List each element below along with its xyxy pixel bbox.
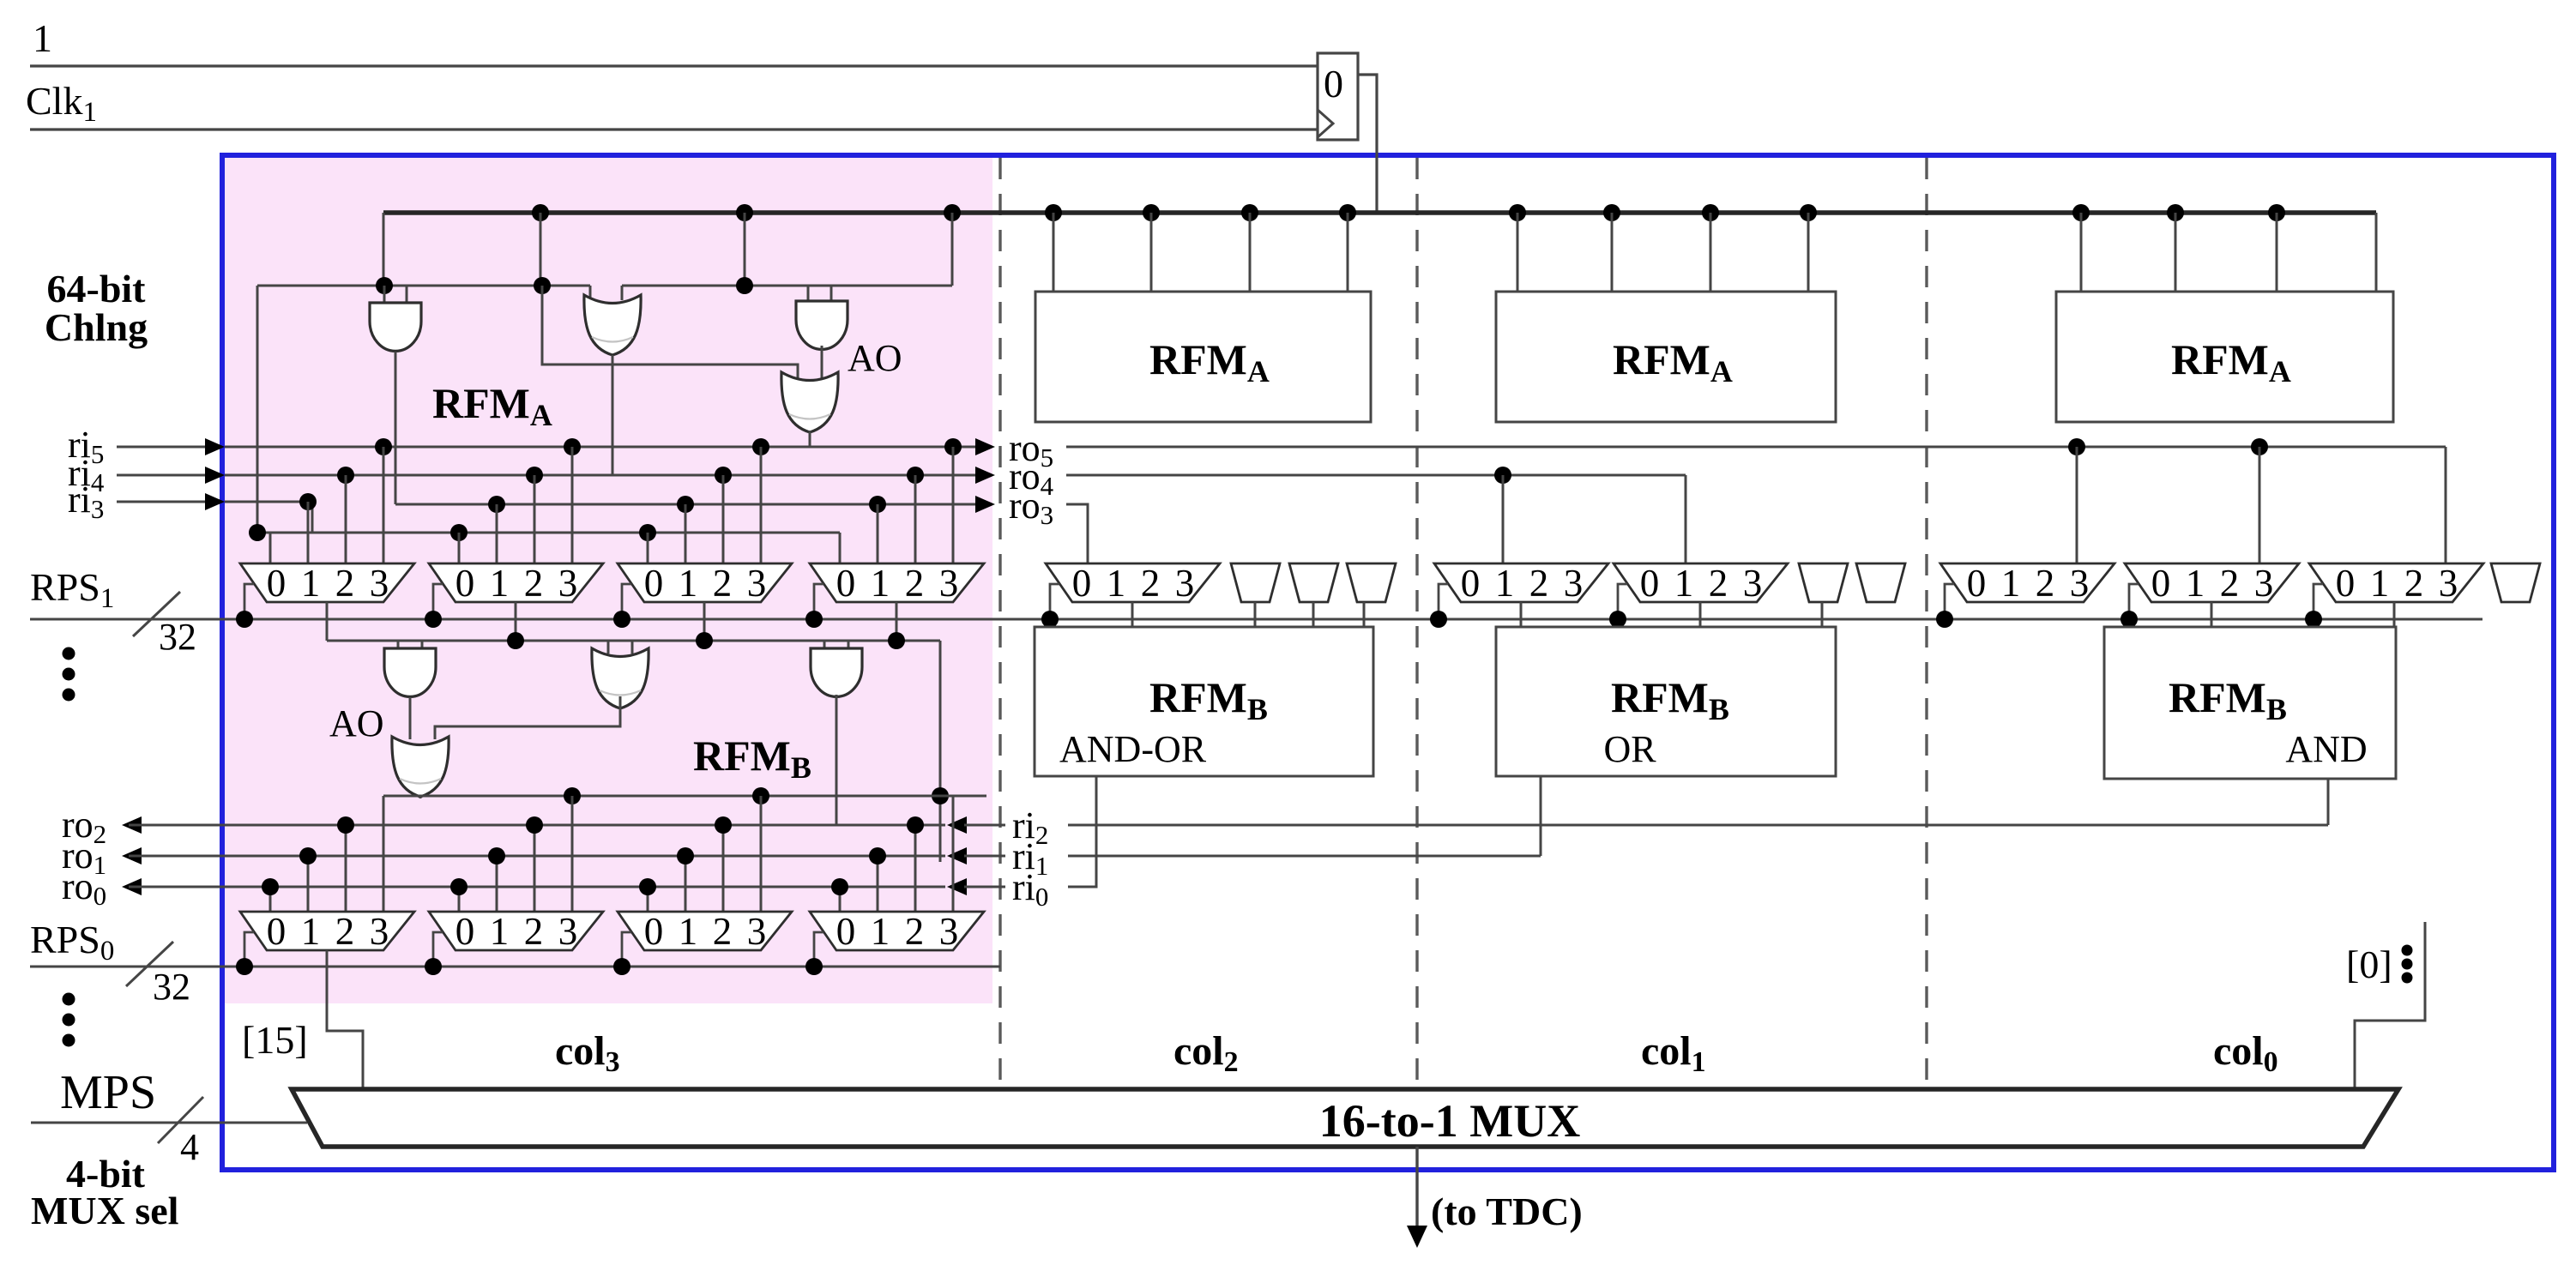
svg-text:3: 3 (939, 910, 959, 953)
svg-text:2: 2 (1709, 562, 1728, 605)
svg-text:2: 2 (524, 910, 544, 953)
svg-text:0: 0 (455, 562, 475, 605)
svg-text:1: 1 (2001, 562, 2021, 605)
svg-text:0: 0 (1072, 562, 1092, 605)
svg-text:AO: AO (848, 337, 902, 379)
svg-text:2: 2 (713, 562, 733, 605)
svg-text:1: 1 (1674, 562, 1694, 605)
svg-text:1: 1 (33, 16, 52, 60)
svg-text:3: 3 (558, 910, 578, 953)
svg-text:1: 1 (871, 910, 890, 953)
svg-text:3: 3 (1175, 562, 1195, 605)
svg-text:1: 1 (871, 562, 890, 605)
svg-text:0: 0 (1967, 562, 1987, 605)
svg-text:0: 0 (836, 910, 856, 953)
svg-text:AND: AND (2285, 728, 2367, 770)
svg-text:0: 0 (644, 562, 664, 605)
svg-text:16-to-1 MUX: 16-to-1 MUX (1319, 1095, 1580, 1147)
svg-text:3: 3 (2254, 562, 2274, 605)
svg-text:1: 1 (679, 910, 698, 953)
svg-text:1: 1 (1107, 562, 1126, 605)
svg-text:2: 2 (905, 562, 925, 605)
svg-text:0: 0 (267, 562, 287, 605)
svg-text:AO: AO (329, 702, 384, 744)
svg-text:3: 3 (558, 562, 578, 605)
svg-text:Chlng: Chlng (45, 305, 148, 349)
svg-text:2: 2 (2220, 562, 2240, 605)
svg-text:2: 2 (335, 910, 355, 953)
svg-text:3: 3 (370, 910, 389, 953)
svg-text:[0]: [0] (2346, 943, 2392, 986)
svg-text:2: 2 (1529, 562, 1549, 605)
svg-text:2: 2 (905, 910, 925, 953)
svg-text:1: 1 (301, 910, 321, 953)
svg-text:0: 0 (2336, 562, 2356, 605)
svg-text:3: 3 (1743, 562, 1763, 605)
svg-text:1: 1 (1495, 562, 1515, 605)
svg-text:3: 3 (370, 562, 389, 605)
svg-text:0: 0 (267, 910, 287, 953)
svg-text:3: 3 (747, 562, 767, 605)
svg-text:1: 1 (490, 562, 510, 605)
svg-text:1: 1 (2186, 562, 2205, 605)
svg-text:0: 0 (2151, 562, 2171, 605)
svg-text:3: 3 (2439, 562, 2458, 605)
svg-text:0: 0 (1324, 62, 1343, 105)
svg-text:2: 2 (524, 562, 544, 605)
svg-text:MPS: MPS (60, 1066, 156, 1119)
svg-text:2: 2 (713, 910, 733, 953)
svg-text:3: 3 (1564, 562, 1584, 605)
svg-text:(to TDC): (to TDC) (1431, 1190, 1583, 1233)
svg-text:1: 1 (301, 562, 321, 605)
svg-text:2: 2 (2036, 562, 2055, 605)
svg-text:3: 3 (939, 562, 959, 605)
svg-text:2: 2 (2404, 562, 2424, 605)
svg-text:0: 0 (644, 910, 664, 953)
svg-text:32: 32 (153, 966, 190, 1008)
svg-text:32: 32 (159, 616, 196, 658)
svg-text:OR: OR (1603, 728, 1656, 770)
svg-text:2: 2 (1141, 562, 1161, 605)
svg-text:MUX sel: MUX sel (31, 1189, 178, 1232)
svg-text:3: 3 (747, 910, 767, 953)
svg-text:1: 1 (679, 562, 698, 605)
svg-text:0: 0 (836, 562, 856, 605)
svg-text:4: 4 (180, 1126, 199, 1168)
svg-text:3: 3 (2070, 562, 2090, 605)
svg-text:[15]: [15] (242, 1018, 308, 1062)
svg-text:1: 1 (490, 910, 510, 953)
svg-text:64-bit: 64-bit (47, 267, 147, 310)
svg-text:2: 2 (335, 562, 355, 605)
svg-text:AND-OR: AND-OR (1059, 728, 1207, 770)
svg-text:0: 0 (1640, 562, 1660, 605)
svg-text:0: 0 (455, 910, 475, 953)
svg-text:0: 0 (1461, 562, 1481, 605)
svg-text:1: 1 (2370, 562, 2390, 605)
